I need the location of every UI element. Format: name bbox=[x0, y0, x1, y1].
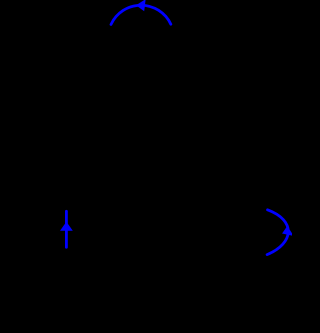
arrowhead of left arrow (pointing up) bbox=[60, 222, 73, 231]
straight arrow left (pointing up) bbox=[65, 211, 68, 247]
curved arrow right (C-shaped arc at right edge) bbox=[267, 210, 288, 255]
arrowhead of right arc (pointing up) bbox=[282, 226, 294, 236]
curved arrow top (counterclockwise arc) bbox=[111, 5, 171, 24]
arrowhead of top arc (pointing left) bbox=[136, 0, 146, 11]
